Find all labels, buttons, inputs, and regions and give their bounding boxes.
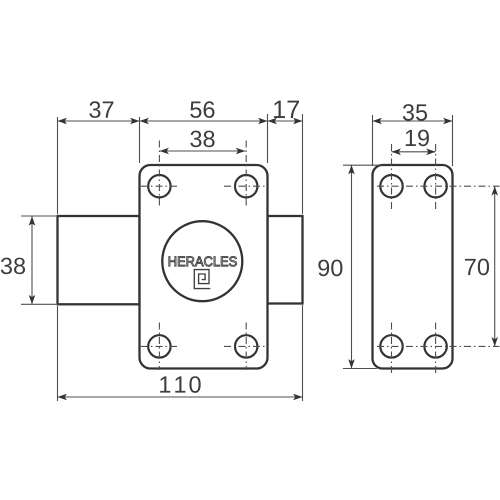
centerline crosshair hole front top-left	[141, 141, 500, 375]
centerline side view top holes (extends right as 70-dim extension)	[377, 185, 500, 187]
extension line dim 56/17 at plate right	[267, 114, 269, 163]
dimension line 37	[58, 120, 140, 122]
dim label 17	[274, 101, 299, 118]
dimension line 90	[351, 165, 353, 369]
arrowheads dim 17	[268, 118, 277, 125]
side view hole bottom-left	[380, 335, 402, 357]
dimension line 17	[268, 120, 303, 122]
arrowheads dim 38 left	[29, 216, 36, 225]
dimension line 19	[392, 151, 436, 153]
centerline side view right hole column	[435, 144, 437, 212]
arrowheads dim 56	[140, 118, 149, 125]
arrowheads dim 37	[58, 118, 67, 125]
arrowheads dim 90	[348, 165, 355, 174]
rear stub (right boss, front view)	[268, 216, 303, 304]
dim label 110	[160, 376, 201, 393]
extension lines dim 110	[57, 306, 59, 401]
mounting hole bottom-left (front)	[148, 335, 170, 357]
centerline crosshair hole front bottom-left	[141, 345, 180, 347]
dim label 38 top	[190, 131, 214, 148]
dim label 35	[403, 104, 427, 121]
centerline crosshair hole front top-right	[224, 185, 268, 187]
dim label 19	[406, 130, 429, 147]
HERACLES brand text	[169, 256, 237, 266]
mounting hole top-right (front)	[235, 175, 257, 197]
arrowheads dim 110	[58, 394, 67, 401]
dimension line 38 top (front holes)	[160, 150, 246, 152]
arrowheads dim 19	[392, 149, 401, 156]
dimension line 56	[140, 120, 268, 122]
side view hole top-left	[380, 175, 402, 197]
side view hole bottom-right	[424, 335, 446, 357]
dim label 70	[465, 259, 489, 276]
extension line dim 17 at stub right	[302, 114, 304, 214]
dimension line 38 left vertical	[31, 216, 33, 304]
arrowheads dim 35	[373, 118, 382, 125]
dim label 38 left	[1, 258, 25, 275]
mounting hole top-left (front)	[148, 175, 170, 197]
dim label 37	[89, 101, 113, 118]
cylinder rosette circle (front)	[162, 221, 242, 301]
dimension line 35	[373, 120, 453, 122]
centerline side view left hole column	[391, 144, 393, 212]
lock body plate (front view)	[140, 165, 268, 369]
dimension line 70	[494, 186, 496, 346]
dim label 90	[318, 260, 342, 277]
centerline side view bottom holes	[377, 345, 500, 347]
side view hole top-right	[424, 175, 446, 197]
side view body plate	[373, 165, 453, 369]
lock barrel (left cylinder, front view)	[58, 216, 140, 304]
extension lines dim 38 left	[21, 215, 56, 217]
HERACLES square spiral logo	[194, 270, 210, 289]
extension lines dim 37	[57, 117, 59, 214]
mounting hole bottom-right (front)	[235, 335, 257, 357]
centerline crosshair hole front bottom-right	[224, 345, 265, 347]
centerline side view bottom hole columns	[391, 323, 393, 375]
extension lines dim 90	[343, 164, 382, 166]
dim label 56	[190, 101, 214, 118]
arrowheads dim 38 top	[160, 148, 169, 155]
extension lines dim 35	[372, 115, 374, 166]
dimension line 110	[58, 396, 303, 398]
arrowheads dim 70	[491, 186, 498, 195]
